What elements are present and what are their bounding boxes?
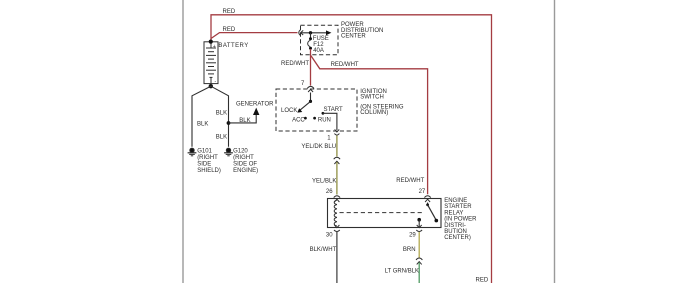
svg-text:G120: G120 (233, 148, 248, 154)
wire BLK battery to G101 (192, 86, 211, 147)
svg-text:RED/WHT: RED/WHT (331, 62, 359, 68)
ignition switch box (276, 89, 357, 131)
node battery negative (209, 84, 213, 88)
svg-text:BRN: BRN (403, 247, 416, 253)
svg-text:ENGINE: ENGINE (444, 198, 467, 204)
relay fixed contact pin 29 (417, 218, 421, 222)
svg-text:+: + (213, 44, 216, 50)
svg-text:COLUMN): COLUMN) (360, 110, 388, 116)
ground G101 (188, 148, 197, 156)
svg-text:BLK: BLK (216, 111, 227, 117)
separator line left (182, 0, 184, 283)
svg-text:(IN POWER: (IN POWER (444, 217, 477, 223)
svg-text:SIDE: SIDE (197, 162, 211, 168)
svg-text:STARTER: STARTER (444, 204, 472, 210)
separator line right (554, 0, 556, 283)
power distribution center box (301, 25, 339, 54)
wire RED/WHT fuse to ignition pin 7 (310, 49, 312, 86)
svg-text:RED: RED (223, 27, 236, 33)
svg-text:LT GRN/BLK: LT GRN/BLK (385, 269, 419, 275)
svg-text:26: 26 (326, 189, 333, 195)
wire YEL/DK BLU pin1 to connector (336, 136, 338, 157)
svg-text:CENTER): CENTER) (444, 235, 471, 241)
node battery positive (209, 40, 213, 44)
svg-text:DISTRI-: DISTRI- (444, 223, 466, 229)
node ignition pivot (309, 100, 312, 103)
svg-text:RED: RED (476, 278, 489, 283)
svg-text:BATTERY: BATTERY (218, 43, 248, 49)
relay dashed actuator line (340, 212, 423, 214)
svg-text:SWITCH: SWITCH (360, 95, 384, 101)
switch blade to LOCK (300, 101, 311, 110)
svg-text:RED/WHT: RED/WHT (396, 178, 424, 184)
svg-text:ENGINE): ENGINE) (233, 168, 258, 174)
svg-text:BLK: BLK (216, 134, 227, 140)
svg-text:BLK: BLK (239, 118, 250, 124)
wire BRN relay pin 29 down (418, 232, 420, 258)
svg-text:LOCK: LOCK (281, 108, 297, 114)
wire PDC internal with arrow (301, 32, 328, 34)
connector pin 30 (334, 225, 340, 232)
wire BLK/WHT relay pin 30 down (336, 232, 338, 283)
wire START to pin 1 (323, 113, 337, 130)
svg-text:G101: G101 (197, 148, 212, 154)
node junction on G120 wire (227, 121, 231, 125)
fuse F12 (310, 33, 312, 38)
svg-text:BLK/WHT: BLK/WHT (310, 247, 337, 253)
wire BLK to generator (229, 114, 257, 123)
engine starter relay box (328, 199, 442, 228)
svg-text:29: 29 (409, 232, 416, 238)
svg-text:(RIGHT: (RIGHT (233, 155, 254, 161)
connector inline brn to green (416, 258, 422, 264)
connector inline yellow-blue (334, 157, 340, 164)
node PDC junction (309, 31, 312, 34)
generator arrow (253, 108, 259, 115)
svg-text:RELAY: RELAY (444, 210, 463, 216)
svg-text:RUN: RUN (318, 118, 331, 124)
wire RED battery to far right vertical (211, 15, 492, 283)
wire ignition pin7 to pivot (310, 93, 312, 102)
connector pin 26 (334, 196, 340, 202)
ground G120 (224, 148, 233, 156)
wire RED battery to PDC (211, 33, 298, 39)
wire YEL/BLK connector to relay pin 26 (336, 162, 338, 195)
relay coil (334, 200, 337, 226)
svg-text:BUTION: BUTION (444, 229, 467, 235)
svg-text:RED/WHT: RED/WHT (281, 61, 309, 67)
node ACC (304, 117, 307, 120)
connector pin 7 (307, 86, 314, 92)
svg-text:YEL/BLK: YEL/BLK (312, 178, 336, 184)
connector pin 29 (416, 225, 422, 232)
wire LT GRN/BLK down (418, 263, 420, 283)
battery (204, 42, 218, 84)
svg-text:CENTER: CENTER (341, 33, 366, 39)
svg-text:YEL/DK BLU: YEL/DK BLU (301, 144, 336, 150)
svg-text:BLK: BLK (197, 122, 208, 128)
connector PDC input (299, 30, 301, 36)
svg-text:RED: RED (223, 9, 236, 15)
connector pin 27 (424, 196, 430, 202)
svg-text:(RIGHT: (RIGHT (197, 155, 218, 161)
wire BLK battery to G120 (211, 86, 229, 147)
svg-text:SIDE OF: SIDE OF (233, 162, 257, 168)
svg-text:SHIELD): SHIELD) (197, 168, 221, 174)
svg-text:ACC: ACC (292, 118, 305, 124)
svg-text:40A: 40A (313, 48, 324, 54)
wire RED/WHT fuse to relay pin 27 (311, 56, 428, 195)
svg-text:GENERATOR: GENERATOR (236, 102, 274, 108)
node START (322, 112, 325, 115)
node RUN (313, 117, 316, 120)
svg-text:START: START (324, 107, 343, 113)
relay switch blade (427, 203, 429, 205)
svg-text:27: 27 (419, 189, 426, 195)
connector pin 1 (334, 129, 339, 135)
svg-text:30: 30 (326, 232, 333, 238)
